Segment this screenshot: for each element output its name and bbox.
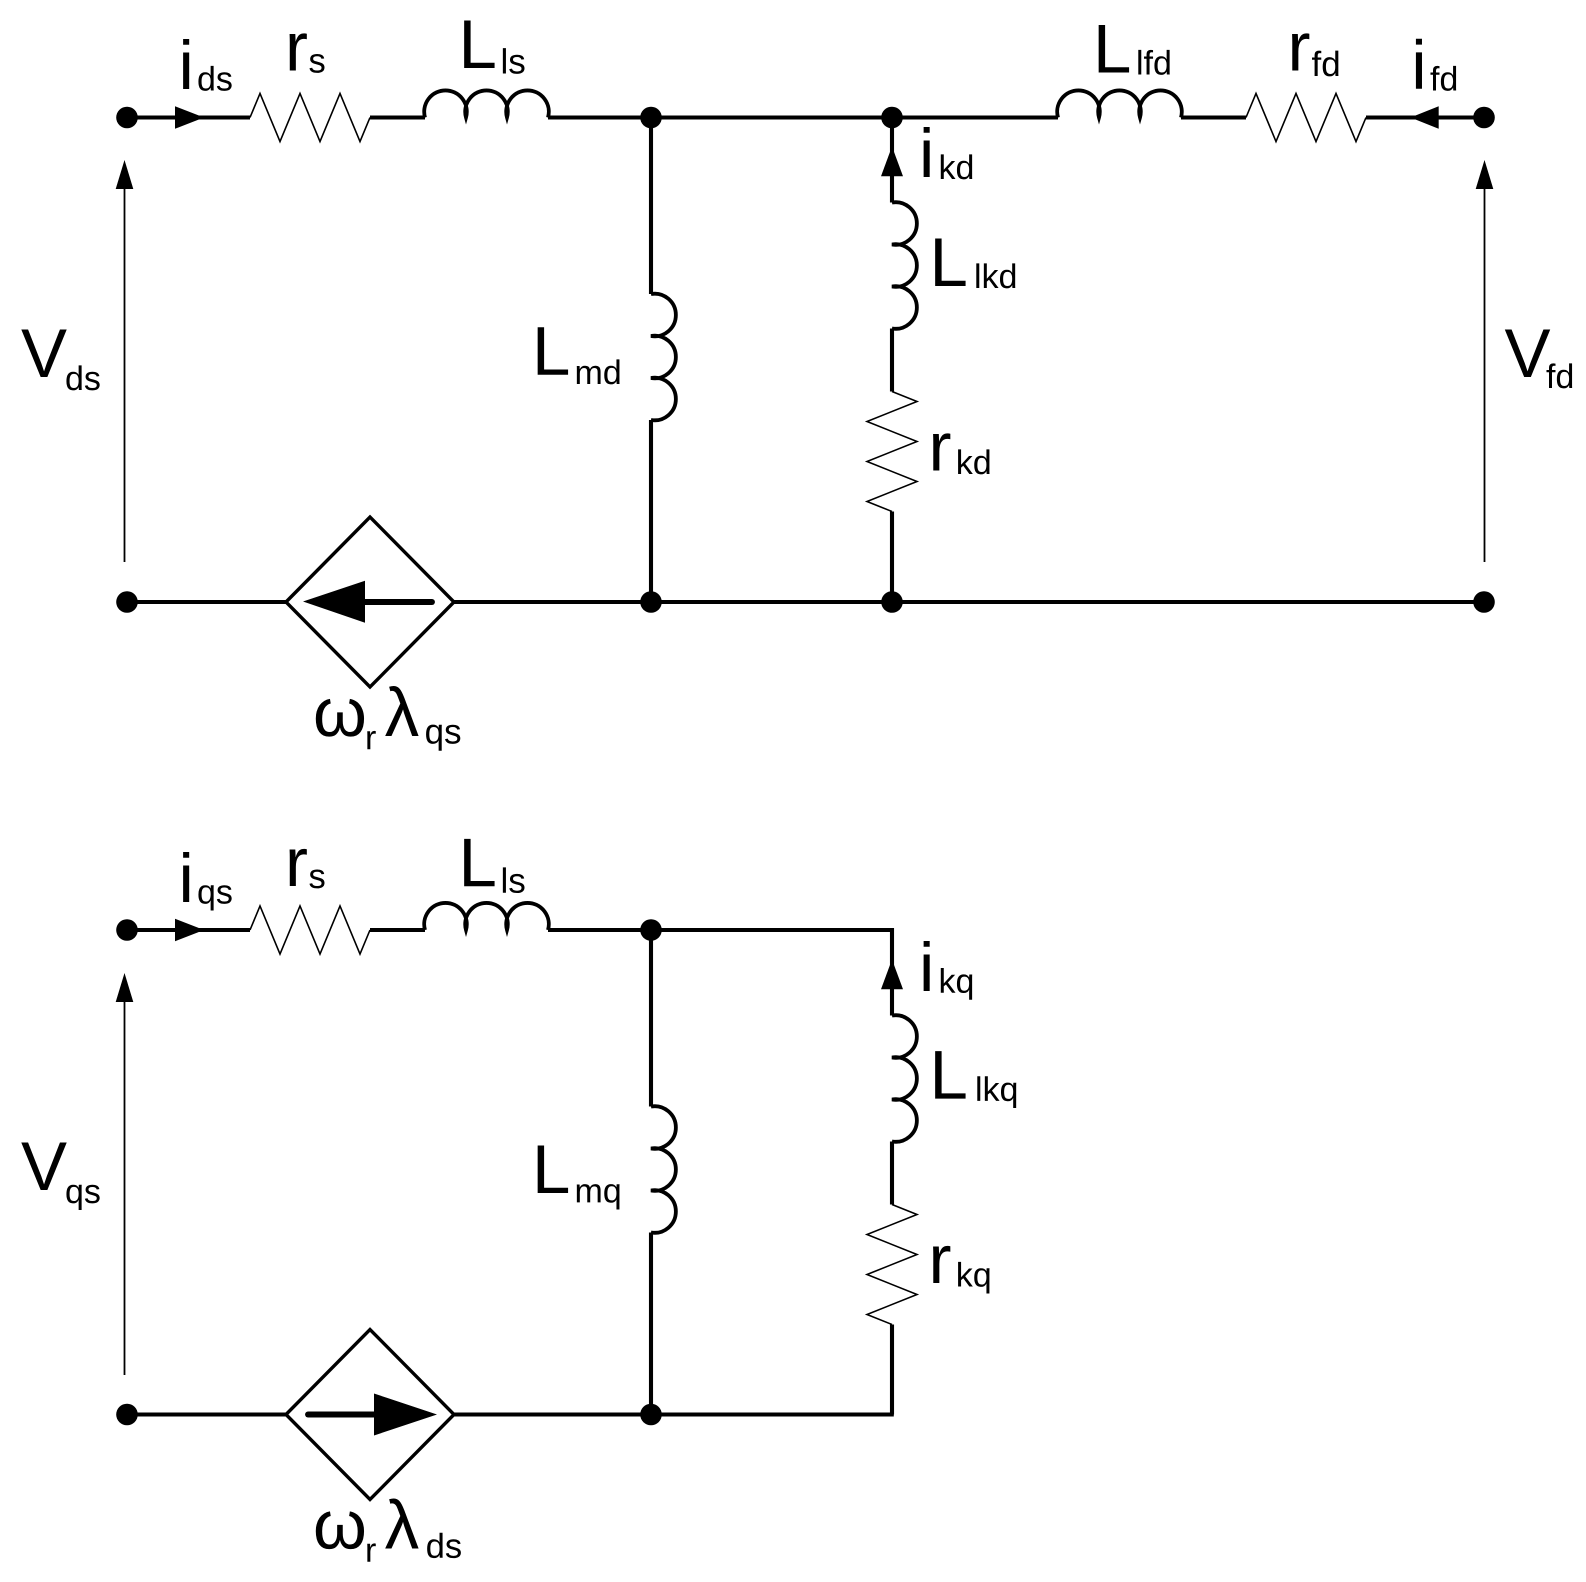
wire magnetizing branch upper — [649, 118, 653, 295]
node bottom-left (q-axis) — [116, 1404, 138, 1426]
inductor L_lfd — [1057, 90, 1182, 117]
dependent source diamond (speed voltage, d-axis) — [286, 517, 454, 687]
node stator terminal top-left — [116, 107, 138, 129]
wire bottom rail (q-axis) — [127, 1412, 894, 1416]
label V_fd — [1505, 330, 1550, 377]
current arrow i_ds — [175, 106, 204, 129]
resistor r_s (d-axis) — [250, 94, 370, 142]
current arrow i_fd — [1411, 106, 1439, 129]
wire between L_lkq and r_kq — [890, 1142, 894, 1205]
current arrow i_kq — [881, 960, 903, 990]
inductor L_mq — [651, 1106, 676, 1233]
current arrow i_qs — [175, 919, 204, 942]
dependent source diamond (speed voltage, q-axis) — [286, 1330, 454, 1500]
label V_ds — [21, 330, 66, 377]
current arrow i_kd — [881, 147, 903, 177]
wire damper branch lower — [890, 512, 894, 603]
node stator terminal top-left (q-axis) — [116, 919, 138, 941]
label L_md — [538, 327, 568, 374]
node junction top (q-axis) — [640, 919, 662, 941]
wire bottom rail (d-axis) — [127, 600, 1484, 604]
wire damper branch upper — [890, 118, 894, 203]
wire between L_lkd and r_kd — [890, 329, 894, 392]
wire top rail left segment (q-axis) — [127, 928, 250, 932]
node field terminal top-right — [1473, 107, 1495, 129]
voltage arrow V_ds — [124, 185, 126, 562]
label L_lfd — [1099, 25, 1129, 72]
resistor r_fd — [1246, 94, 1366, 142]
node junction top A — [640, 107, 662, 129]
label i_ds — [183, 39, 189, 89]
label omega_r lambda_qs — [316, 699, 364, 737]
node junction top B — [881, 107, 903, 129]
source arrow (points left) — [362, 599, 432, 605]
wire magnetizing branch lower (q-axis) — [649, 1233, 653, 1415]
inductor L_ls (d-axis) — [424, 90, 549, 117]
label L_lkq — [935, 1051, 965, 1098]
resistor r_kd — [867, 392, 917, 512]
source arrow (points right) — [308, 1412, 378, 1418]
node bottom-right (d-axis) — [1473, 591, 1495, 613]
wire damper branch lower (q-axis) — [890, 1325, 894, 1415]
wire top rail right segment (q-axis) — [548, 928, 892, 932]
wire damper branch corner (q-axis) — [890, 930, 892, 1016]
resistor r_kq — [867, 1205, 917, 1325]
label L_ls — [464, 21, 494, 68]
label r_s (q-axis) — [290, 849, 307, 886]
label omega_r lambda_ds — [316, 1511, 364, 1549]
inductor L_lkq — [892, 1015, 917, 1142]
label i_qs — [183, 852, 189, 902]
inductor L_lkd — [892, 202, 917, 329]
wire top rail middle segment — [548, 115, 1058, 119]
wire between r_s and L_ls — [370, 115, 425, 119]
voltage arrow V_fd — [1484, 185, 1486, 562]
label r_kd — [933, 433, 950, 470]
wire top rail left segment — [127, 115, 250, 119]
label V_qs — [21, 1143, 66, 1190]
node bottom junction under L_mq — [640, 1404, 662, 1426]
wire magnetizing branch upper (q-axis) — [649, 930, 653, 1107]
label L_lkd — [935, 239, 965, 286]
voltage arrow V_qs — [124, 998, 126, 1375]
wire field terminal segment — [1366, 115, 1484, 119]
label r_fd — [1292, 33, 1309, 70]
inductor L_ls (q-axis) — [424, 903, 549, 930]
node bottom junction under L_md — [640, 591, 662, 613]
label r_kq — [933, 1246, 950, 1283]
inductor L_md — [651, 294, 676, 421]
label L_mq — [538, 1146, 568, 1193]
label r_s — [290, 33, 307, 70]
node bottom-left (d-axis) — [116, 591, 138, 613]
node bottom junction under r_kd — [881, 591, 903, 613]
label i_fd — [1416, 39, 1422, 89]
wire between L_lfd and r_fd — [1181, 115, 1246, 119]
resistor r_s (q-axis) — [250, 906, 370, 954]
label i_kd — [924, 127, 930, 177]
label i_kq — [924, 941, 930, 991]
label L_ls (q-axis) — [464, 839, 494, 886]
wire magnetizing branch lower — [649, 420, 653, 602]
wire between r_s and L_ls (q-axis) — [370, 928, 425, 932]
